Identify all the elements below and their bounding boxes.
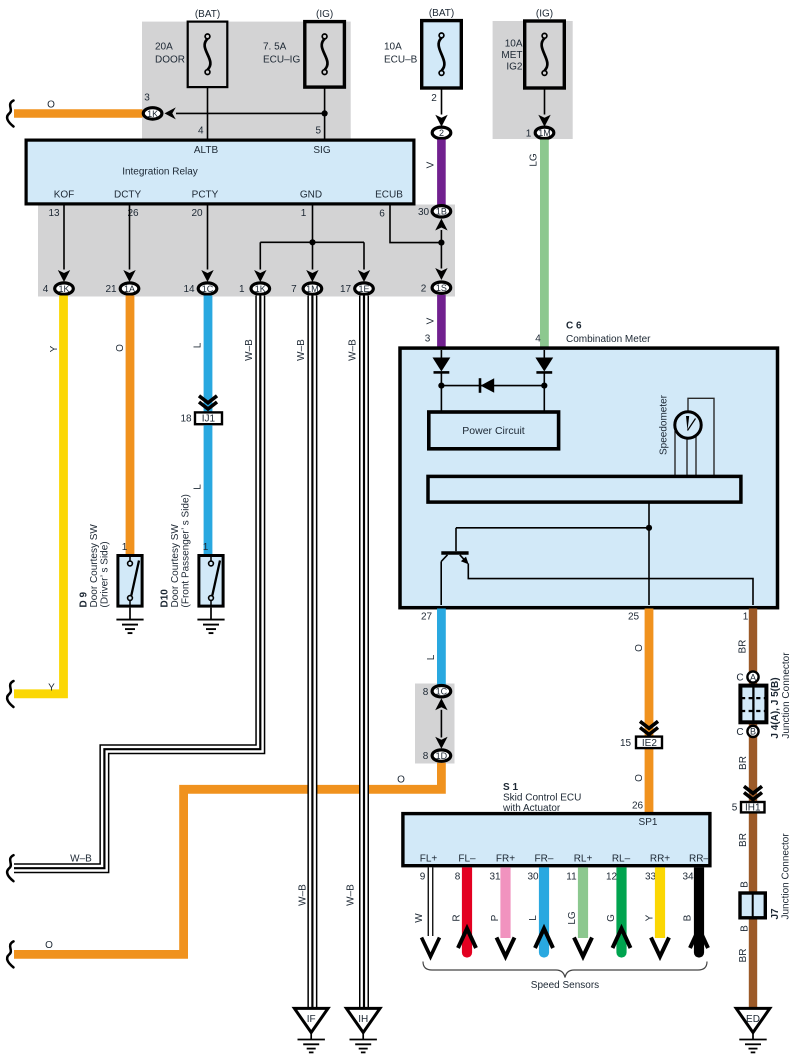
svg-text:5: 5 [732, 803, 738, 814]
svg-text:FL+: FL+ [420, 854, 438, 865]
speed sensor wire L (pin 30) [539, 867, 549, 948]
connector 1A pin 21 [105, 283, 138, 295]
double chevron above IH1 [744, 786, 762, 799]
svg-text:with Actuator: with Actuator [502, 803, 561, 814]
svg-text:C: C [736, 727, 743, 738]
wire 1B to 1S [440, 230, 442, 269]
double chevron above IJ1 [199, 396, 217, 409]
svg-text:O: O [397, 775, 405, 786]
svg-text:P: P [490, 914, 501, 921]
wire ECU-B fuse down [441, 88, 443, 114]
svg-text:1: 1 [203, 542, 209, 553]
gray background block (connectors 1C/1D) [415, 684, 455, 764]
connector 1B pin 30 [418, 206, 451, 218]
svg-text:4: 4 [535, 334, 541, 345]
wire W-B from 1E pin 17 to ground IH (white-black striped wire) [359, 296, 369, 1009]
svg-text:1D: 1D [436, 751, 448, 761]
svg-text:17: 17 [340, 284, 352, 295]
svg-text:Y: Y [48, 683, 55, 694]
svg-text:G: G [606, 914, 617, 922]
svg-text:GND: GND [300, 190, 322, 201]
svg-text:Speed Sensors: Speed Sensors [531, 980, 599, 991]
svg-text:1K: 1K [255, 284, 266, 294]
wire W-B from 1M pin 7 to ground IF (white-black striped wire) [307, 296, 317, 1009]
skid control ECU box S1 [403, 814, 710, 866]
wire Y (1K pin4 to left break) [14, 296, 64, 694]
wire O (meter pin 25 to skid ECU pin 26) [645, 609, 654, 814]
svg-text:1: 1 [239, 284, 245, 295]
speed sensors brace [423, 962, 707, 978]
svg-text:BR: BR [738, 756, 749, 770]
svg-text:2: 2 [421, 283, 427, 294]
junction on GND branch [309, 239, 315, 245]
connector 1K pin 1 [239, 283, 270, 295]
svg-text:FR+: FR+ [496, 854, 515, 865]
svg-text:C: C [736, 673, 743, 684]
svg-text:20A: 20A [155, 42, 173, 53]
svg-text:D 9: D 9 [79, 592, 90, 608]
svg-text:33: 33 [645, 872, 657, 883]
wire DCTY to connector [129, 204, 131, 270]
svg-text:30: 30 [418, 207, 430, 218]
svg-text:12: 12 [606, 872, 618, 883]
wire PCTY to connector [207, 204, 209, 270]
svg-text:W–B: W–B [70, 854, 92, 865]
svg-text:RR–: RR– [689, 854, 709, 865]
svg-text:O: O [45, 940, 53, 951]
connector 1S pin 2 [421, 282, 451, 294]
svg-text:ALTB: ALTB [194, 145, 219, 156]
wire bar to pin 25 [648, 504, 650, 606]
svg-text:1C: 1C [436, 687, 448, 697]
svg-text:BR: BR [738, 833, 749, 847]
svg-text:KOF: KOF [54, 190, 75, 201]
svg-text:LG: LG [528, 153, 539, 167]
wire between diodes [441, 385, 544, 387]
connector 1K pin 4 [43, 283, 74, 295]
arrow into connector 1K pin 4 [58, 270, 70, 282]
diode D-right (pin 4) [535, 350, 553, 411]
svg-text:IJ1: IJ1 [202, 414, 216, 425]
gray background block (top fuse area) [142, 22, 351, 139]
svg-text:PCTY: PCTY [192, 190, 219, 201]
svg-text:RL+: RL+ [574, 854, 593, 865]
svg-text:B: B [750, 727, 756, 737]
svg-text:1S: 1S [436, 283, 447, 293]
svg-text:1M: 1M [306, 284, 319, 294]
svg-text:4: 4 [43, 284, 49, 295]
svg-text:26: 26 [632, 801, 644, 812]
svg-text:2: 2 [439, 128, 444, 138]
svg-text:8: 8 [423, 751, 429, 762]
wire ECU-IG fuse to SIG [324, 87, 326, 139]
svg-text:1B: 1B [436, 207, 447, 217]
arrow up into 1B [435, 219, 447, 231]
junction connector J4(A)/J5(B) circle A [736, 671, 758, 683]
junction connector IJ1 pin 18 [180, 412, 222, 424]
arrow down into 1D [435, 737, 447, 749]
svg-text:L: L [192, 484, 203, 490]
wire KOF to connector [63, 204, 65, 270]
svg-text:O: O [115, 344, 126, 352]
wire L (meter pin 27 to 1C) [437, 609, 446, 686]
svg-text:1A: 1A [124, 284, 135, 294]
svg-text:V: V [425, 317, 436, 324]
svg-text:RR+: RR+ [650, 854, 670, 865]
svg-text:30: 30 [527, 872, 539, 883]
internal bus bar box [428, 476, 741, 502]
wire V (ECU-B to 1B) [437, 140, 446, 206]
svg-text:3: 3 [144, 93, 150, 104]
combination meter box C6 [400, 348, 778, 608]
svg-text:RL–: RL– [612, 854, 631, 865]
connector 1C pin 14 [183, 283, 216, 295]
diode D-middle (pointing left) [480, 378, 494, 393]
svg-text:4: 4 [198, 126, 204, 137]
svg-text:R: R [451, 914, 462, 921]
svg-text:D10: D10 [160, 589, 171, 608]
arrow into connector 1A pin 21 [123, 270, 135, 282]
junction connector J4(A)/J5(B) circle B [736, 726, 758, 738]
door courtesy switch D10 (front passenger side) ground [197, 608, 224, 634]
svg-text:W–B: W–B [297, 884, 308, 906]
wire O (1D to bottom-left break) [14, 763, 441, 955]
arrow into connector 1M [538, 115, 550, 127]
svg-text:27: 27 [421, 612, 433, 623]
arrow into connector 1M pin 7 [306, 270, 318, 282]
arrow into connector 1E pin 17 [358, 270, 370, 282]
junction right diode [541, 383, 547, 389]
svg-text:A: A [750, 672, 756, 682]
svg-text:10A: 10A [384, 42, 402, 53]
svg-text:(BAT): (BAT) [429, 8, 454, 19]
fuse 10A ECU-B (BAT) [422, 8, 462, 88]
svg-text:O: O [634, 644, 645, 652]
svg-text:FL–: FL– [458, 854, 476, 865]
svg-text:V: V [425, 161, 436, 168]
svg-text:5: 5 [315, 126, 321, 137]
svg-text:B: B [739, 881, 750, 888]
break left of bottom orange O wire (wire break squiggle) [7, 941, 13, 967]
connector 1E pin 17 [340, 283, 373, 295]
wire L (IJ1 to door courtesy switch D10) [204, 425, 213, 555]
svg-text:BR: BR [738, 949, 749, 963]
speed sensor wire P (pin 31) [500, 867, 510, 938]
speed sensor wire G (pin 12) [616, 867, 626, 948]
svg-text:10A: 10A [505, 39, 523, 50]
speed sensor wire B (pin 34) [694, 867, 704, 948]
svg-text:13: 13 [48, 208, 60, 219]
svg-text:B: B [682, 914, 693, 921]
arrow into connector 2 [435, 115, 447, 127]
svg-text:1M: 1M [538, 128, 551, 138]
svg-text:IH1: IH1 [745, 803, 761, 814]
connector 1K pin 3 (top-left) [143, 108, 162, 119]
svg-text:15: 15 [620, 738, 632, 749]
double chevron above IE2 [640, 721, 658, 734]
wire GND down [312, 204, 314, 270]
svg-text:Y: Y [49, 345, 60, 352]
wire O (1A to door courtesy switch D9) [126, 296, 135, 556]
svg-text:3: 3 [425, 334, 431, 345]
speedometer symbol [675, 398, 714, 476]
wire GND branch to 1K [259, 242, 261, 269]
svg-text:(IG): (IG) [316, 9, 333, 20]
wire BR (meter pin 1 to ground ED) [749, 609, 757, 1009]
svg-text:L: L [528, 915, 539, 921]
svg-text:1E: 1E [358, 284, 369, 294]
svg-text:1C: 1C [202, 284, 214, 294]
ground IH [346, 1008, 380, 1052]
svg-text:Junction Connector: Junction Connector [781, 652, 792, 739]
break left of yellow Y wire (wire break squiggle) [7, 681, 13, 707]
fuse 20A DOOR (BAT) [188, 9, 228, 87]
ground ED [736, 1008, 770, 1052]
speed sensor wire LG (pin 11) [578, 867, 588, 938]
svg-text:ED: ED [746, 1014, 760, 1025]
svg-text:9: 9 [420, 872, 426, 883]
wire W-B from 1K pin 1 to left break (white-black striped wire) [14, 296, 260, 869]
svg-text:1K: 1K [147, 109, 158, 119]
svg-text:(Front Passenger’ s Side): (Front Passenger’ s Side) [181, 494, 192, 607]
wire MET fuse down [544, 88, 546, 114]
svg-text:J 4(A), J 5(B): J 4(A), J 5(B) [770, 677, 781, 738]
svg-text:ECU–IG: ECU–IG [263, 55, 300, 66]
diode D-left (pin 3) [433, 350, 451, 411]
svg-text:1: 1 [526, 128, 532, 139]
arrow into connector 1K [165, 107, 176, 119]
svg-text:Y: Y [644, 914, 655, 921]
svg-text:18: 18 [180, 414, 192, 425]
svg-text:Skid Control ECU: Skid Control ECU [503, 793, 581, 804]
svg-text:1K: 1K [58, 284, 69, 294]
svg-text:Junction Connector: Junction Connector [781, 833, 792, 920]
wire O to connector 1K pin3 [14, 109, 143, 117]
svg-text:MET: MET [501, 50, 522, 61]
svg-text:J7: J7 [770, 908, 781, 920]
junction connector J4(A)/J5(B) box [740, 686, 766, 723]
svg-text:O: O [47, 100, 55, 111]
junction connector J7 [740, 893, 765, 918]
fuse 10A MET IG2 (IG) [525, 9, 565, 89]
speed sensor wire W (pin 9) [422, 867, 440, 956]
svg-text:IH: IH [358, 1014, 368, 1025]
svg-text:DOOR: DOOR [155, 55, 185, 66]
door courtesy switch D10 (front passenger side) [199, 542, 223, 607]
svg-text:SIG: SIG [313, 145, 330, 156]
connector 1D pin 8 [423, 750, 451, 762]
wire 1C to 1D [440, 710, 442, 738]
connector 2 (ECU-B) [432, 127, 451, 138]
svg-text:1: 1 [301, 208, 307, 219]
svg-text:SP1: SP1 [639, 817, 658, 828]
wire L (1C to junction IJ1) [204, 296, 213, 413]
svg-text:(Driver’ s Side): (Driver’ s Side) [100, 541, 111, 607]
junction connector IH1 pin 5 [732, 802, 765, 814]
door courtesy switch D9 (driver side) [118, 542, 142, 607]
arrow into connector 1K pin 1 [254, 270, 266, 282]
svg-text:31: 31 [489, 872, 501, 883]
svg-text:W–B: W–B [296, 339, 307, 361]
svg-text:LG: LG [567, 911, 578, 925]
svg-text:L: L [192, 342, 203, 348]
svg-text:DCTY: DCTY [114, 190, 142, 201]
svg-text:14: 14 [183, 284, 195, 295]
wire LG (1M to meter pin 4) [540, 140, 549, 349]
svg-text:25: 25 [628, 612, 640, 623]
svg-text:B: B [739, 925, 750, 932]
wire DOOR fuse to ALTB [207, 87, 209, 139]
wire GND branch to 1E [363, 242, 365, 269]
svg-text:S 1: S 1 [503, 782, 518, 793]
svg-text:11: 11 [566, 872, 577, 883]
wire V (1S to meter pin 3) [437, 295, 446, 348]
speed sensor wire R (pin 8) [462, 867, 472, 948]
svg-text:BR: BR [738, 640, 749, 654]
svg-text:ECU–B: ECU–B [384, 55, 418, 66]
wire ECUB branch [390, 204, 441, 243]
connector 1M pin 1 [526, 127, 554, 139]
break left of W-B wire (wire break squiggle) [7, 855, 13, 881]
door courtesy switch D9 (driver side) ground [116, 608, 143, 634]
svg-text:Door Courtesy SW: Door Courtesy SW [170, 524, 181, 608]
svg-text:6: 6 [379, 209, 385, 220]
wire junction to transistor base [456, 527, 649, 529]
ground IF [294, 1008, 328, 1052]
svg-text:Integration Relay: Integration Relay [122, 167, 198, 178]
svg-text:IE2: IE2 [642, 738, 657, 749]
svg-text:W–B: W–B [347, 339, 358, 361]
svg-text:L: L [426, 654, 437, 660]
svg-text:(IG): (IG) [536, 9, 553, 20]
svg-text:21: 21 [105, 284, 117, 295]
svg-text:W–B: W–B [345, 884, 356, 906]
svg-text:IG2: IG2 [506, 62, 523, 73]
svg-text:1: 1 [743, 612, 749, 623]
gray background block (MET IG2 fuse) [493, 21, 573, 139]
arrow up into 1C [435, 698, 447, 710]
svg-text:Speedometer: Speedometer [658, 394, 669, 455]
arrow down into 1S [435, 268, 447, 280]
break left of orange O wire (wire break squiggle) [7, 101, 13, 127]
junction ECUB / 1B-1S line [438, 240, 444, 246]
svg-text:Combination Meter: Combination Meter [566, 334, 651, 345]
svg-text:Door Courtesy SW: Door Courtesy SW [89, 524, 100, 608]
svg-text:2: 2 [431, 93, 437, 104]
svg-text:W–B: W–B [244, 339, 255, 361]
svg-text:7. 5A: 7. 5A [263, 42, 287, 53]
svg-text:W: W [414, 913, 425, 923]
svg-text:20: 20 [191, 208, 203, 219]
svg-text:8: 8 [423, 687, 429, 698]
svg-text:FR–: FR– [535, 854, 554, 865]
connector 1C pin 8 [423, 686, 451, 698]
svg-text:C 6: C 6 [566, 321, 582, 332]
wire down to base [455, 528, 457, 551]
svg-text:1: 1 [122, 542, 128, 553]
wire connector 1K to SIG line [176, 112, 325, 114]
wire GND branch horizontal [260, 241, 364, 243]
connector 1M pin 7 [291, 283, 322, 295]
speed sensor wire Y (pin 33) [655, 867, 665, 938]
arrow into connector 1C pin 14 [201, 270, 213, 282]
integration relay box [26, 140, 414, 204]
svg-text:IF: IF [307, 1014, 316, 1025]
gray background block (below integration relay) [38, 205, 455, 297]
fuse 7.5A ECU-IG (IG) [305, 9, 345, 87]
svg-text:(BAT): (BAT) [195, 9, 220, 20]
svg-text:7: 7 [291, 284, 297, 295]
svg-text:ECUB: ECUB [375, 190, 403, 201]
power circuit box [429, 412, 559, 449]
junction left diode [438, 383, 444, 389]
svg-text:O: O [634, 774, 645, 782]
svg-text:8: 8 [455, 872, 461, 883]
junction below bar [646, 525, 652, 531]
junction on SIG line [322, 110, 328, 116]
svg-text:34: 34 [682, 872, 694, 883]
svg-text:Power Circuit: Power Circuit [462, 425, 525, 437]
junction connector IE2 pin 15 [620, 737, 662, 749]
transistor Q (meter output) [441, 553, 753, 605]
